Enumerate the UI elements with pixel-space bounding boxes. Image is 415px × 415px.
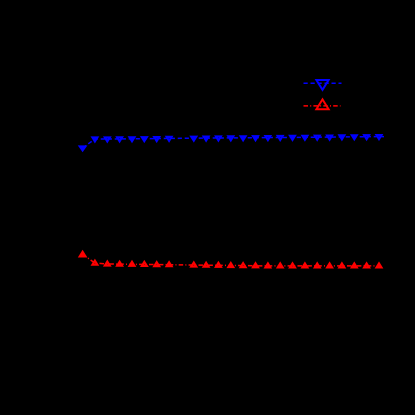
red marker 16	[266, 264, 271, 268]
red marker 2	[93, 261, 98, 265]
blue marker 1 (filled start point)	[79, 146, 87, 152]
blue marker 8	[167, 137, 172, 141]
blue marker 24	[364, 135, 369, 139]
red marker 5	[130, 262, 135, 266]
red marker 7	[154, 262, 159, 266]
red marker 21	[327, 264, 332, 268]
red marker 23	[352, 264, 357, 268]
red marker 6	[142, 262, 147, 266]
red marker 20	[315, 264, 320, 268]
blue marker 22	[340, 135, 345, 139]
blue marker 7	[154, 137, 159, 141]
blue series dashed line	[83, 137, 384, 148]
blue marker 15	[253, 136, 258, 140]
blue marker 17	[278, 136, 283, 140]
red marker 4	[117, 262, 122, 266]
blue marker 4	[117, 137, 122, 141]
red marker 12	[216, 263, 221, 267]
blue marker 12	[216, 137, 221, 141]
blue marker 14	[241, 136, 246, 140]
red marker 14	[241, 263, 246, 267]
red marker 8	[167, 262, 172, 266]
blue marker 6	[142, 137, 147, 141]
red marker 18	[290, 264, 295, 268]
legend blue marker (open down-triangle)	[316, 80, 328, 90]
red marker 24	[364, 264, 369, 268]
red marker 1 (filled start point)	[79, 251, 87, 257]
blue marker 11	[204, 137, 209, 141]
blue marker 23	[352, 135, 357, 139]
blue marker 16	[266, 136, 271, 140]
red marker 3	[105, 262, 110, 266]
red marker 22	[340, 264, 345, 268]
legend red marker (open up-triangle)	[316, 99, 328, 109]
red series dash-dot line	[83, 254, 383, 266]
blue marker 5	[130, 137, 135, 141]
red marker 19	[303, 264, 308, 268]
blue marker 2	[93, 138, 98, 142]
red marker 17	[278, 264, 283, 268]
red marker 11	[204, 263, 209, 267]
red marker 15	[253, 263, 258, 267]
legend blue sample line	[304, 82, 342, 84]
red marker 25	[377, 264, 382, 268]
blue marker 25	[377, 135, 382, 139]
blue marker 20	[315, 136, 320, 140]
blue marker 10	[191, 137, 196, 141]
blue marker 19	[303, 136, 308, 140]
red marker 13	[228, 263, 233, 267]
blue marker 13	[228, 136, 233, 140]
red marker 10	[191, 263, 196, 267]
blue marker 3	[105, 138, 110, 142]
blue marker 21	[327, 136, 332, 140]
legend red sample line	[304, 105, 341, 107]
blue marker 18	[290, 136, 295, 140]
